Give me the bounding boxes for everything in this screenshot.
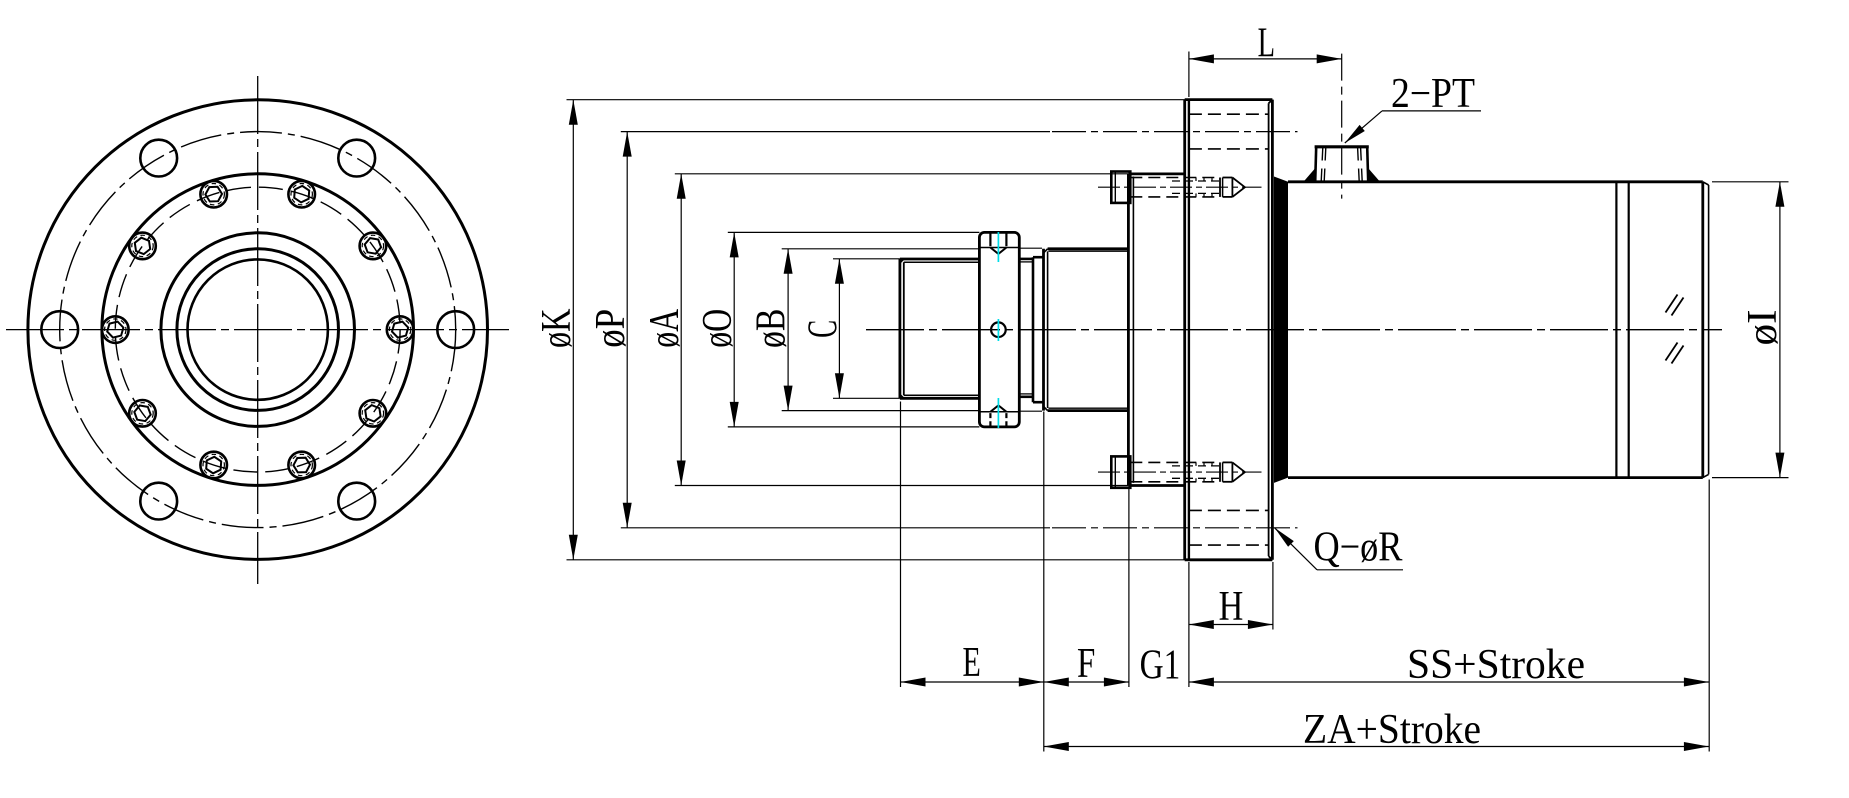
screw bolt circle (dashed)	[115, 187, 400, 472]
dimension E	[901, 640, 1044, 687]
svg-text:øI: øI	[1740, 310, 1786, 346]
label G1	[1140, 643, 1181, 689]
port boss 2-PT	[1304, 54, 1381, 199]
dimension øB	[749, 249, 980, 411]
head cover outer circle	[102, 174, 414, 486]
svg-text:E: E	[962, 640, 980, 686]
dimension ZA+Stroke	[1044, 707, 1709, 753]
rod thread circle	[188, 259, 328, 399]
nut cyan centerline	[997, 232, 999, 434]
svg-text:2−PT: 2−PT	[1391, 71, 1475, 117]
extension lines bottom	[901, 402, 1710, 752]
side view centerline	[866, 329, 1722, 331]
front view vertical centerline	[257, 76, 259, 584]
cylinder tube øI	[1288, 182, 1709, 478]
dimension L	[1189, 21, 1342, 98]
dimension øP	[588, 132, 1050, 528]
svg-text:øK: øK	[534, 309, 580, 349]
dimension øK	[534, 100, 1189, 560]
dimension øI	[1712, 182, 1789, 478]
dimension øO	[695, 232, 979, 427]
flange outer circle	[28, 100, 488, 560]
dimension øA	[642, 174, 1128, 486]
svg-text:L: L	[1258, 21, 1275, 67]
thread stub and collar	[1019, 257, 1043, 402]
svg-text:H: H	[1219, 584, 1244, 630]
svg-text:øB: øB	[749, 309, 795, 349]
piston rod thread C	[900, 259, 980, 398]
svg-text:øP: øP	[588, 309, 634, 348]
hidden hole top Q-øR	[1052, 114, 1298, 149]
piston rod circle	[177, 249, 339, 411]
svg-text:øA: øA	[642, 308, 688, 347]
large-hole bolt circle (dash-dot)	[60, 132, 456, 528]
dimension H	[1189, 562, 1273, 630]
cover screw bottom	[1098, 456, 1262, 487]
svg-text:SS+Stroke: SS+Stroke	[1407, 642, 1585, 688]
front view horizontal centerline	[6, 329, 509, 331]
rod nut with wrench flats	[979, 232, 1019, 427]
gland nut circle	[161, 233, 355, 427]
hidden hole bottom Q-øR	[1052, 510, 1298, 545]
dimension SS+Stroke	[1189, 642, 1709, 688]
svg-text:øO: øO	[695, 309, 741, 348]
svg-text:ZA+Stroke: ZA+Stroke	[1303, 707, 1481, 753]
cover screw top	[1098, 172, 1262, 203]
svg-text:C: C	[801, 320, 847, 338]
dimension F	[1044, 641, 1129, 687]
six mounting holes Q-øR	[41, 140, 474, 520]
svg-text:G1: G1	[1140, 643, 1181, 689]
front mounting flange øK	[1185, 100, 1273, 560]
ten hex socket screws on bolt circle	[102, 181, 413, 478]
rod shoulder øB	[1019, 248, 1128, 411]
svg-text:Q−øR: Q−øR	[1314, 525, 1403, 571]
tube weld seam	[1616, 182, 1628, 478]
svg-text:F: F	[1077, 641, 1095, 687]
flange-tube weld band	[1274, 177, 1288, 483]
leader 2-PT	[1345, 71, 1481, 143]
leader Q-øR	[1275, 525, 1403, 571]
tube break marks	[1666, 295, 1684, 364]
dimension C	[801, 259, 900, 399]
head cover plate øA	[1128, 174, 1184, 486]
